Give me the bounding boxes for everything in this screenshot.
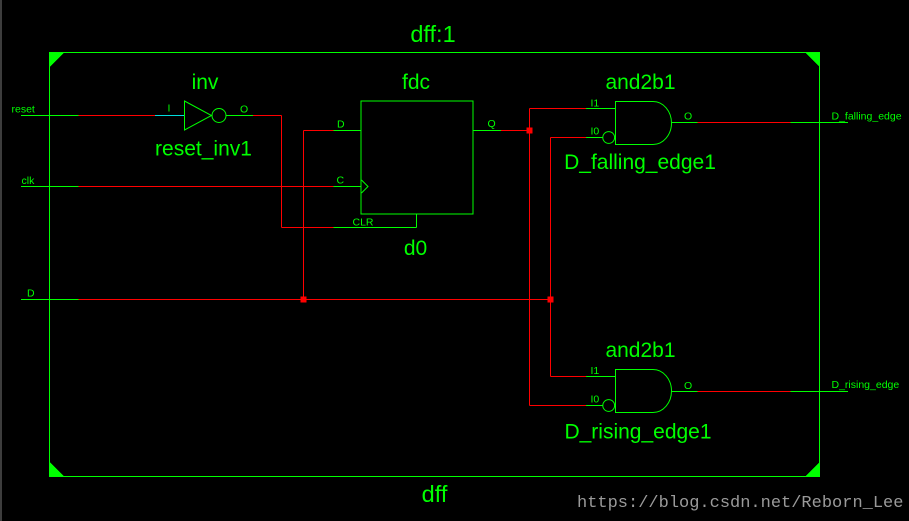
- port clk marker line: [21, 186, 79, 188]
- bottom gate I0 stub: [586, 405, 603, 407]
- junction on D net lower: [548, 297, 554, 303]
- svg-text:dff:1: dff:1: [410, 21, 455, 47]
- corner triangle top-right: [805, 52, 821, 68]
- svg-text:I0: I0: [591, 126, 600, 138]
- svg-text:dff: dff: [422, 481, 448, 507]
- bubble on I0 (top gate): [603, 132, 615, 144]
- svg-text:https://blog.csdn.net/Reborn_L: https://blog.csdn.net/Reborn_Lee: [577, 494, 903, 513]
- svg-text:D_falling_edge: D_falling_edge: [832, 111, 902, 123]
- wire to CLR: [282, 227, 334, 229]
- wire to fdc D pin: [304, 130, 334, 132]
- svg-text:D_rising_edge: D_rising_edge: [832, 379, 900, 391]
- and-gate U D_falling_edge1 body: [616, 102, 672, 145]
- svg-text:and2b1: and2b1: [605, 339, 675, 362]
- svg-text:D: D: [337, 119, 345, 131]
- svg-text:clk: clk: [22, 175, 36, 187]
- flip-flop fdc box d0: [361, 101, 473, 214]
- wire inverter output down: [281, 116, 283, 228]
- wire reset to inverter: [79, 115, 156, 117]
- corner triangle top-left: [49, 52, 65, 68]
- wire inverter output right: [253, 115, 282, 117]
- fdc D pin stub: [334, 130, 362, 132]
- svg-text:I1: I1: [591, 98, 600, 110]
- inverter output stub: [226, 115, 253, 117]
- fdc CLR stub horizontal: [334, 227, 417, 229]
- svg-text:O: O: [684, 111, 692, 123]
- port D marker line: [21, 299, 79, 301]
- svg-text:inv: inv: [192, 71, 219, 94]
- svg-text:CLR: CLR: [353, 217, 374, 229]
- clock triangle: [362, 180, 369, 193]
- svg-text:O: O: [240, 104, 248, 116]
- svg-text:d0: d0: [404, 237, 427, 260]
- svg-text:Q: Q: [488, 118, 496, 130]
- wire D horizontal: [79, 299, 551, 301]
- wire Q net to I0 of bottom gate: [530, 405, 587, 407]
- wire Q net to I1 of top gate: [530, 108, 587, 110]
- port D_rising_edge marker line: [791, 391, 849, 393]
- port D_falling_edge marker line: [791, 122, 849, 124]
- corner triangle bottom-left: [49, 462, 65, 478]
- svg-text:D_falling_edge1: D_falling_edge1: [564, 151, 716, 174]
- and-gate U D_rising_edge1 body: [616, 370, 672, 413]
- fdc Q pin stub: [473, 130, 501, 132]
- bottom gate I1 stub: [586, 376, 616, 378]
- wire bottom gate output: [698, 391, 791, 393]
- svg-text:C: C: [337, 175, 345, 187]
- svg-text:I: I: [168, 103, 171, 115]
- wire D net to I0 of top gate: [551, 137, 587, 139]
- fdc CLR stub vertical: [416, 214, 418, 228]
- fdc C pin stub: [334, 186, 362, 188]
- wire top gate output: [698, 122, 791, 124]
- top gate I0 stub: [586, 137, 603, 139]
- port reset marker line: [21, 115, 79, 117]
- wire D net vertical: [550, 138, 552, 377]
- svg-text:D_rising_edge1: D_rising_edge1: [564, 421, 711, 444]
- junction on D wire at fdc branch: [301, 297, 307, 303]
- svg-text:and2b1: and2b1: [605, 71, 675, 94]
- wire clk to fdc C: [79, 186, 334, 188]
- bubble on I0 (bottom gate): [603, 400, 615, 412]
- wire Q to junction: [501, 130, 530, 132]
- inverter input stub (cyan): [155, 115, 184, 117]
- top gate output stub: [672, 122, 698, 124]
- svg-text:D: D: [27, 288, 35, 300]
- op-amp inv triangle U reset_inv1: [185, 101, 227, 130]
- wire Q net vertical: [529, 109, 531, 406]
- svg-text:I0: I0: [591, 394, 600, 406]
- svg-text:O: O: [684, 380, 692, 392]
- svg-text:fdc: fdc: [402, 71, 430, 94]
- window edge strip: [0, 0, 2, 521]
- top gate I1 stub: [586, 108, 616, 110]
- svg-text:reset_inv1: reset_inv1: [155, 138, 252, 161]
- bottom gate output stub: [672, 391, 698, 393]
- corner triangle bottom-right: [805, 462, 821, 478]
- svg-text:reset: reset: [12, 104, 35, 116]
- svg-text:I1: I1: [591, 365, 600, 377]
- wire D up to fdc D pin: [303, 131, 305, 300]
- sheet border: [50, 53, 820, 477]
- wire D net to I1 of bottom gate: [551, 376, 587, 378]
- junction on Q net: [527, 128, 533, 134]
